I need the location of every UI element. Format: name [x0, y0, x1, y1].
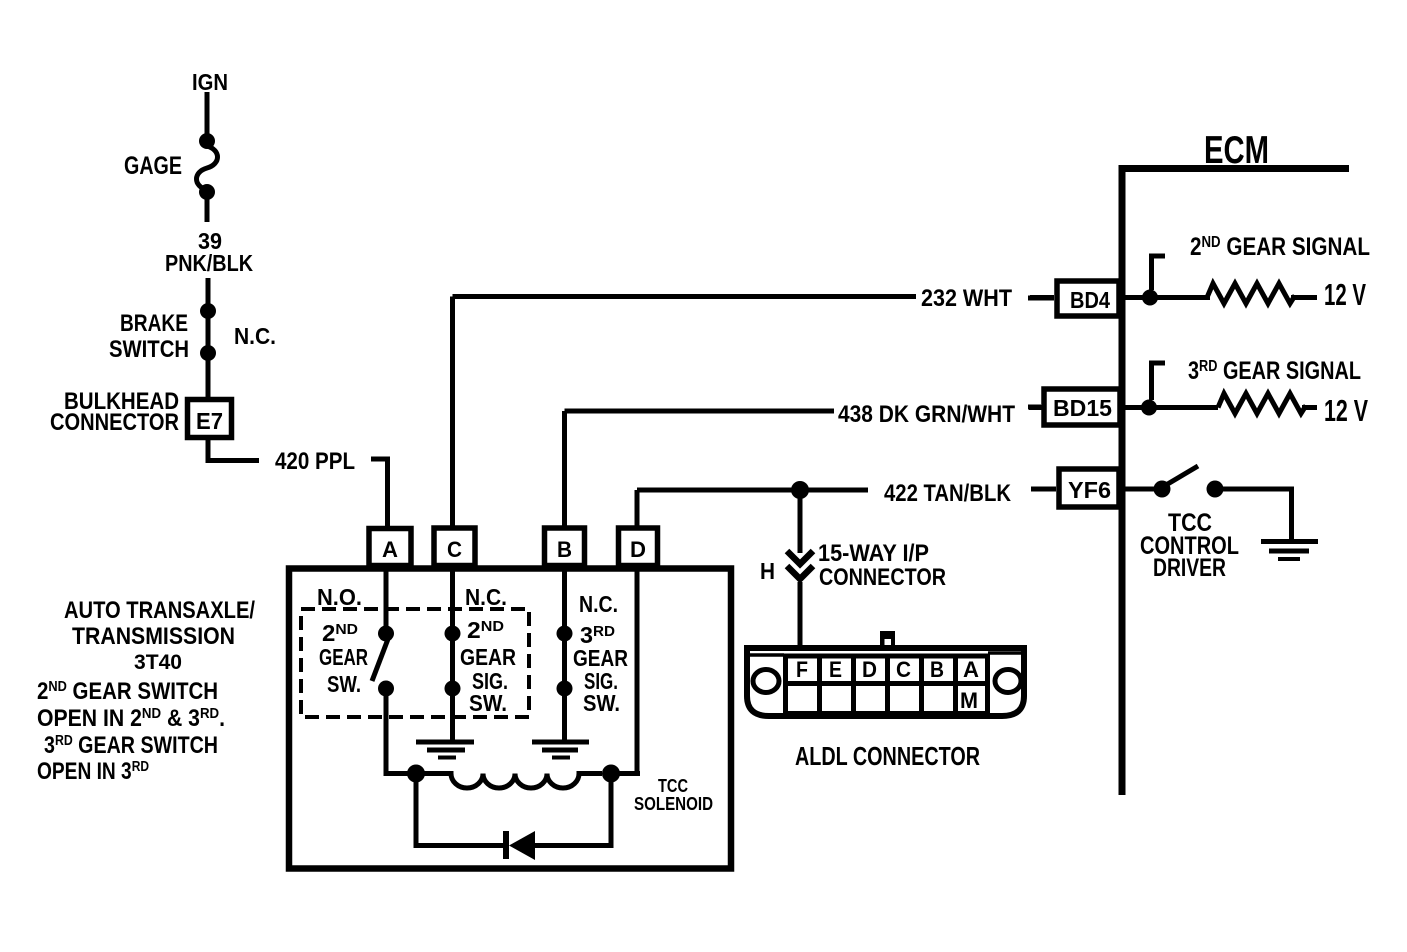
- svg-text:CONNECTOR: CONNECTOR: [819, 564, 946, 591]
- svg-text:SW.: SW.: [583, 690, 620, 716]
- svg-text:ALDL CONNECTOR: ALDL CONNECTOR: [795, 741, 980, 771]
- svg-text:BD4: BD4: [1070, 287, 1110, 313]
- svg-text:SW.: SW.: [327, 671, 361, 697]
- svg-text:E: E: [829, 657, 842, 682]
- svg-text:B: B: [930, 657, 944, 682]
- svg-text:IGN: IGN: [192, 69, 228, 95]
- svg-text:AUTO TRANSAXLE/: AUTO TRANSAXLE/: [64, 597, 255, 624]
- svg-text:C: C: [896, 657, 911, 682]
- svg-text:N.C.: N.C.: [234, 323, 276, 349]
- svg-text:H: H: [760, 558, 775, 584]
- svg-text:GEAR: GEAR: [319, 644, 368, 670]
- svg-text:TRANSMISSION: TRANSMISSION: [72, 623, 235, 650]
- svg-text:DRIVER: DRIVER: [1153, 554, 1226, 582]
- svg-text:OPEN IN 2ND & 3RD.: OPEN IN 2ND & 3RD.: [37, 705, 225, 732]
- svg-text:CONNECTOR: CONNECTOR: [50, 409, 179, 436]
- svg-text:D: D: [630, 537, 646, 562]
- svg-text:A: A: [382, 537, 398, 562]
- svg-text:422 TAN/BLK: 422 TAN/BLK: [884, 480, 1012, 507]
- svg-text:SW.: SW.: [469, 690, 507, 716]
- svg-text:BRAKE: BRAKE: [120, 310, 188, 337]
- svg-text:GEAR: GEAR: [460, 644, 516, 670]
- svg-text:YF6: YF6: [1068, 477, 1111, 503]
- svg-text:GAGE: GAGE: [124, 152, 182, 180]
- svg-text:E7: E7: [196, 408, 223, 434]
- svg-text:SOLENOID: SOLENOID: [634, 794, 713, 814]
- svg-text:N.O.: N.O.: [317, 584, 362, 610]
- svg-text:B: B: [557, 537, 572, 562]
- svg-text:12 V: 12 V: [1324, 393, 1368, 428]
- svg-text:420 PPL: 420 PPL: [275, 448, 355, 475]
- svg-text:C: C: [447, 537, 462, 562]
- svg-text:12 V: 12 V: [1324, 277, 1366, 312]
- svg-text:PNK/BLK: PNK/BLK: [165, 250, 253, 276]
- svg-text:438 DK GRN/WHT: 438 DK GRN/WHT: [838, 401, 1015, 428]
- svg-text:N.C.: N.C.: [465, 584, 507, 610]
- svg-text:3T40: 3T40: [134, 651, 182, 674]
- svg-text:N.C.: N.C.: [579, 591, 618, 617]
- svg-text:D: D: [862, 657, 877, 682]
- svg-text:232 WHT: 232 WHT: [921, 285, 1012, 312]
- svg-text:F: F: [796, 657, 808, 682]
- svg-text:BD15: BD15: [1053, 395, 1112, 421]
- svg-text:A: A: [963, 657, 979, 682]
- svg-text:15-WAY I/P: 15-WAY I/P: [818, 540, 929, 567]
- svg-text:SWITCH: SWITCH: [109, 336, 189, 363]
- svg-text:M: M: [960, 688, 978, 713]
- svg-text:TCC: TCC: [658, 776, 688, 796]
